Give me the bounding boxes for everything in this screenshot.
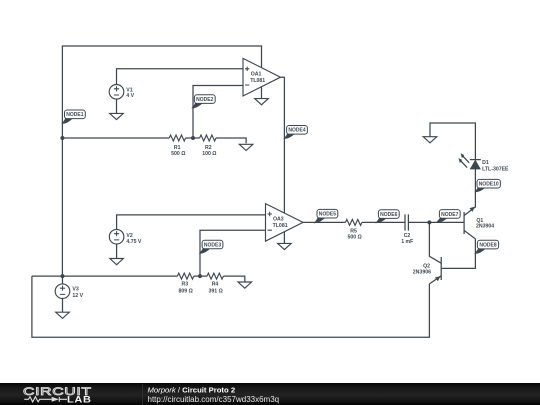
svg-text:4 V: 4 V [126,93,134,99]
svg-text:NODE8: NODE8 [479,243,496,249]
svg-text:R5: R5 [350,229,357,235]
svg-text:V3: V3 [72,287,78,293]
svg-text:LAB: LAB [67,395,92,405]
svg-text:NODE5: NODE5 [319,212,336,218]
svg-text:TL081: TL081 [273,223,288,229]
svg-text:500 Ω: 500 Ω [348,235,362,241]
svg-text:NODE6: NODE6 [380,212,397,218]
svg-text:NODE1: NODE1 [66,112,83,118]
svg-text:D1: D1 [482,160,489,166]
svg-text:391 Ω: 391 Ω [209,289,223,295]
svg-text:100 Ω: 100 Ω [202,151,216,157]
svg-text:LTL-307EE: LTL-307EE [482,166,509,172]
svg-text:NODE2: NODE2 [196,97,213,103]
svg-text:NODE4: NODE4 [288,128,305,134]
svg-text:2N3904: 2N3904 [476,223,494,229]
svg-text:12 V: 12 V [72,293,83,299]
svg-text:1 mF: 1 mF [401,239,413,245]
svg-text:OA1: OA1 [251,72,262,78]
svg-text:500 Ω: 500 Ω [171,151,185,157]
svg-text:4.75 V: 4.75 V [126,239,142,245]
svg-text:TL081: TL081 [250,78,265,84]
svg-text:R4: R4 [212,282,219,288]
svg-text:809 Ω: 809 Ω [179,289,193,295]
svg-text:OA3: OA3 [273,217,284,223]
svg-text:Morpork / Circuit Proto 2: Morpork / Circuit Proto 2 [148,385,236,394]
svg-text:NODE10: NODE10 [479,182,499,188]
svg-text:NODE3: NODE3 [204,242,221,248]
svg-text:http://circuitlab.com/c357wd33: http://circuitlab.com/c357wd33x6m3q [148,395,280,404]
svg-text:2N3906: 2N3906 [413,269,431,275]
svg-text:R3: R3 [182,282,189,288]
svg-text:NODE7: NODE7 [441,212,458,218]
